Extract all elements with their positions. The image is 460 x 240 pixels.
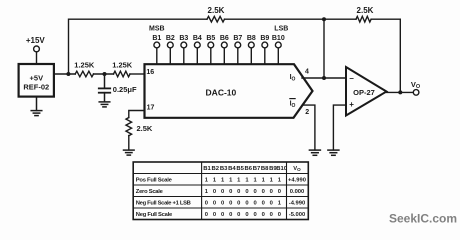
junction node summing point — [322, 76, 326, 80]
wire op-amp output — [387, 91, 414, 93]
input terminal B6 — [221, 42, 227, 64]
svg-text:VO: VO — [293, 166, 301, 172]
svg-text:0: 0 — [270, 201, 273, 207]
svg-text:Pos Full Scale: Pos Full Scale — [136, 178, 173, 184]
svg-text:0: 0 — [245, 201, 248, 207]
svg-text:1.25K: 1.25K — [112, 60, 133, 69]
ground below 2.5K resistor — [124, 150, 135, 155]
svg-text:2.5K: 2.5K — [357, 6, 374, 15]
svg-text:0: 0 — [229, 189, 232, 195]
svg-text:0: 0 — [253, 189, 256, 195]
ground below capacitor — [99, 102, 110, 107]
svg-text:2.5K: 2.5K — [208, 6, 225, 15]
wire +15V to REF-02 — [36, 52, 38, 64]
svg-text:LSB: LSB — [274, 26, 288, 33]
input terminal B9 — [262, 42, 268, 64]
svg-text:B5: B5 — [236, 166, 244, 172]
svg-text:1: 1 — [278, 178, 282, 184]
svg-text:B2: B2 — [212, 166, 220, 172]
svg-text:0: 0 — [205, 201, 208, 207]
wire resistor to ground — [128, 136, 130, 150]
svg-text:0: 0 — [237, 189, 240, 195]
resistor R 2.5K (offset) — [207, 16, 224, 22]
svg-text:0: 0 — [262, 212, 265, 218]
svg-text:0.25μF: 0.25μF — [113, 85, 137, 94]
svg-text:0: 0 — [221, 212, 224, 218]
terminal Vo — [413, 90, 419, 96]
svg-text:B3: B3 — [220, 166, 228, 172]
svg-text:0: 0 — [253, 201, 256, 207]
svg-text:Neg Full Scale: Neg Full Scale — [136, 212, 173, 218]
voltage reference U REF-02 — [19, 64, 54, 97]
ground below REF-02 — [31, 97, 42, 116]
svg-text:17: 17 — [147, 104, 155, 111]
junction node on top rail — [322, 17, 326, 21]
svg-text:0: 0 — [262, 201, 265, 207]
table header bits row — [203, 166, 287, 172]
svg-text:B9: B9 — [260, 35, 269, 42]
svg-text:0: 0 — [229, 201, 232, 207]
resistor R 1.25K (first) — [75, 71, 93, 77]
svg-text:B10: B10 — [272, 35, 285, 42]
capacitor C 0.25uF — [99, 74, 110, 102]
wire rail right segment — [371, 19, 400, 92]
svg-text:2.5K: 2.5K — [137, 124, 153, 133]
svg-text:B2: B2 — [166, 35, 175, 42]
svg-text:1: 1 — [205, 189, 209, 195]
input terminal B8 — [248, 42, 254, 64]
svg-text:0: 0 — [245, 189, 248, 195]
svg-text:0: 0 — [221, 201, 224, 207]
wire between 1.25K resistors — [94, 73, 114, 75]
svg-text:0: 0 — [270, 212, 273, 218]
svg-text:1: 1 — [270, 178, 274, 184]
svg-text:0: 0 — [270, 189, 273, 195]
svg-text:1: 1 — [245, 178, 249, 184]
resistor R 1.25K (second) — [114, 71, 131, 77]
svg-text:B5: B5 — [206, 35, 215, 42]
svg-text:0: 0 — [205, 212, 208, 218]
svg-text:2: 2 — [305, 109, 309, 116]
svg-text:MSB: MSB — [149, 26, 165, 33]
svg-text:0: 0 — [262, 189, 265, 195]
svg-text:VO: VO — [411, 80, 421, 90]
svg-text:+5V: +5V — [30, 74, 44, 83]
svg-text:1: 1 — [237, 178, 241, 184]
input terminal B4 — [194, 42, 200, 64]
wire vertical tap to summing node — [323, 19, 325, 78]
wire DAC pin 2 — [302, 105, 315, 150]
svg-text:+4.990: +4.990 — [288, 178, 306, 184]
svg-text:+: + — [349, 100, 354, 109]
svg-text:0: 0 — [278, 189, 281, 195]
svg-text:B4: B4 — [193, 35, 202, 42]
input terminal B3 — [181, 42, 187, 64]
svg-text:+15V: +15V — [26, 36, 46, 45]
input terminal B7 — [235, 42, 241, 64]
svg-text:B8: B8 — [247, 35, 256, 42]
svg-text:B1: B1 — [152, 35, 161, 42]
junction node at REF output — [66, 72, 70, 76]
svg-text:1: 1 — [221, 178, 225, 184]
svg-text:0: 0 — [278, 212, 281, 218]
svg-text:B7: B7 — [233, 35, 242, 42]
wire op-amp non-inverting input to ground — [333, 105, 346, 150]
input terminal B10 — [275, 42, 281, 64]
terminal +15V — [34, 46, 40, 52]
svg-text:0: 0 — [253, 212, 256, 218]
truth table — [133, 162, 308, 220]
svg-text:0: 0 — [221, 189, 224, 195]
svg-text:B6: B6 — [245, 166, 253, 172]
resistor R 2.5K (feedback) — [356, 16, 371, 22]
svg-text:B1: B1 — [203, 166, 211, 172]
svg-text:B6: B6 — [220, 35, 229, 42]
junction node at capacitor tap — [103, 72, 107, 76]
input terminal B1 — [154, 42, 160, 64]
svg-text:0: 0 — [229, 212, 232, 218]
svg-text:REF-02: REF-02 — [23, 82, 49, 91]
wire DAC pin 4 to op-amp inverting input — [302, 77, 346, 79]
overline of Io-bar — [289, 98, 295, 100]
svg-text:-4.990: -4.990 — [289, 201, 305, 207]
svg-text:DAC-10: DAC-10 — [206, 88, 237, 98]
svg-text:B10: B10 — [276, 166, 288, 172]
wire DAC pin 17 to resistor — [129, 111, 144, 118]
svg-text:1: 1 — [213, 178, 217, 184]
wire top rail left segment — [69, 19, 208, 74]
svg-text:0: 0 — [213, 212, 216, 218]
svg-text:1.25K: 1.25K — [74, 60, 95, 69]
svg-text:–: – — [349, 74, 354, 83]
svg-text:IO: IO — [290, 74, 296, 82]
svg-text:1: 1 — [205, 178, 209, 184]
op-amp U OP-27 — [346, 67, 387, 116]
svg-text:IO: IO — [290, 101, 296, 109]
svg-text:0.000: 0.000 — [290, 189, 305, 195]
svg-text:0: 0 — [245, 212, 248, 218]
svg-text:SeekIC.com: SeekIC.com — [389, 211, 457, 225]
resistor R 2.5K (pin 17) — [126, 118, 132, 136]
svg-text:B3: B3 — [179, 35, 188, 42]
wire rail mid segment — [225, 18, 357, 20]
svg-text:B4: B4 — [228, 166, 236, 172]
wire REF-02 output — [54, 73, 75, 75]
svg-text:0: 0 — [213, 189, 216, 195]
svg-text:1: 1 — [253, 178, 257, 184]
svg-text:Neg Full Scale +1 LSB: Neg Full Scale +1 LSB — [136, 201, 191, 207]
svg-text:16: 16 — [146, 69, 154, 76]
svg-text:OP-27: OP-27 — [353, 88, 375, 97]
svg-text:1: 1 — [262, 178, 266, 184]
wire to DAC pin 16 — [130, 73, 144, 75]
DAC U DAC-10 body — [145, 64, 313, 118]
input terminal B5 — [208, 42, 214, 64]
svg-text:Zero Scale: Zero Scale — [136, 189, 164, 195]
svg-text:B7: B7 — [253, 166, 261, 172]
svg-text:0: 0 — [237, 212, 240, 218]
svg-text:0: 0 — [237, 201, 240, 207]
svg-text:0: 0 — [213, 201, 216, 207]
svg-text:-5.000: -5.000 — [289, 212, 305, 218]
input terminal B2 — [167, 42, 173, 64]
svg-text:1: 1 — [229, 178, 233, 184]
svg-text:4: 4 — [305, 69, 309, 76]
svg-text:B8: B8 — [261, 166, 269, 172]
ground below op-amp + input — [328, 150, 339, 155]
junction node op-amp output — [398, 90, 402, 94]
ground below pin 2 — [309, 150, 320, 155]
svg-text:1: 1 — [278, 201, 282, 207]
